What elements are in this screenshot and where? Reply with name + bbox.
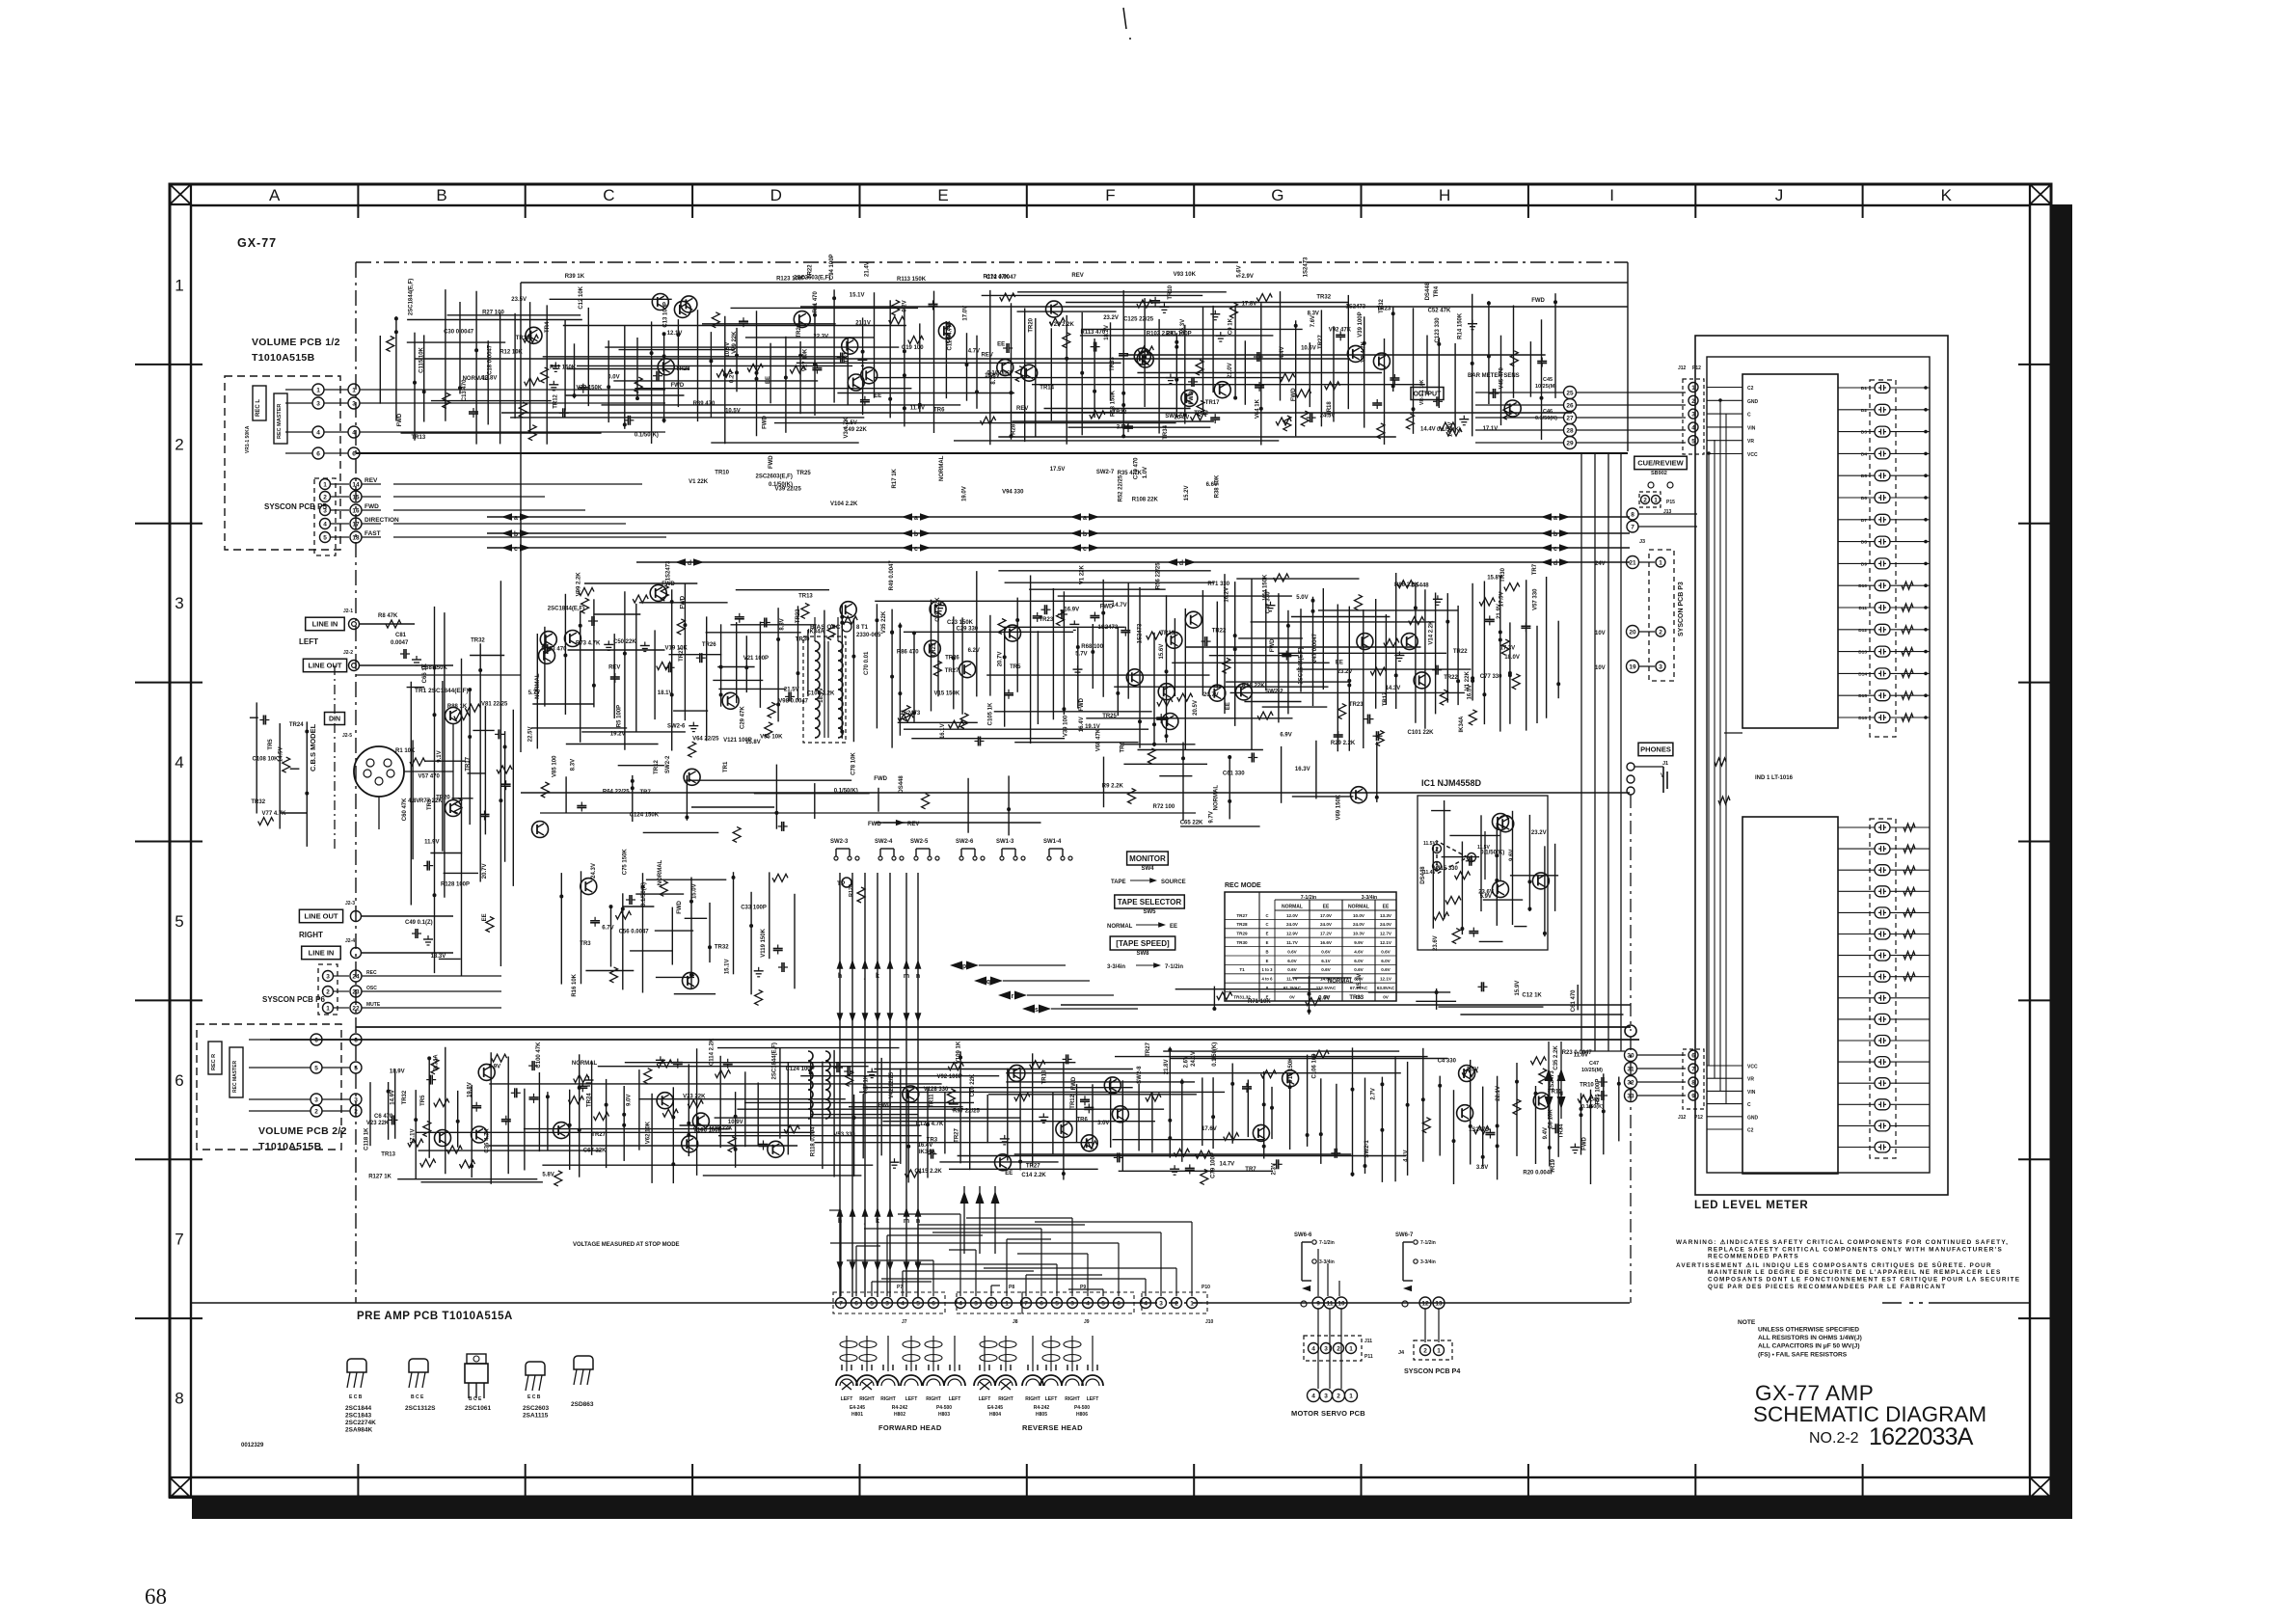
svg-text:V16 150K: V16 150K bbox=[1288, 1057, 1294, 1083]
svg-text:R20 0.0047: R20 0.0047 bbox=[1523, 1170, 1553, 1176]
svg-text:n: n bbox=[916, 973, 920, 980]
svg-text:R39 1K: R39 1K bbox=[565, 274, 585, 280]
svg-text:20.7V: 20.7V bbox=[1203, 692, 1219, 698]
svg-text:R86 2.2K: R86 2.2K bbox=[1394, 582, 1419, 588]
svg-text:3: 3 bbox=[314, 1097, 318, 1104]
svg-text:24.5V: 24.5V bbox=[1320, 413, 1336, 419]
svg-text:18.0V: 18.0V bbox=[1504, 655, 1520, 661]
svg-text:TR30: TR30 bbox=[1236, 940, 1248, 945]
svg-text:C101 22K: C101 22K bbox=[1408, 730, 1435, 736]
svg-text:TR10: TR10 bbox=[1580, 1083, 1594, 1089]
svg-text:R127 1K: R127 1K bbox=[368, 1174, 392, 1179]
svg-text:2SC1844: 2SC1844 bbox=[345, 1405, 371, 1412]
svg-text:SW6-7: SW6-7 bbox=[1395, 1232, 1414, 1238]
svg-text:G: G bbox=[1271, 186, 1283, 204]
svg-text:D15: D15 bbox=[1858, 693, 1867, 699]
svg-text:3: 3 bbox=[1070, 1301, 1074, 1308]
svg-text:17.5V: 17.5V bbox=[1050, 467, 1066, 473]
svg-text:RIGHT: RIGHT bbox=[859, 1396, 875, 1402]
svg-text:PHONES: PHONES bbox=[1640, 745, 1671, 754]
svg-text:TR23: TR23 bbox=[932, 642, 937, 657]
svg-text:R39 470: R39 470 bbox=[693, 401, 716, 407]
svg-text:TR28: TR28 bbox=[1236, 922, 1248, 927]
svg-text:C67 22K: C67 22K bbox=[583, 1148, 607, 1153]
svg-text:5: 5 bbox=[1691, 438, 1695, 445]
svg-text:17.3V: 17.3V bbox=[1500, 646, 1516, 652]
svg-text:FORWARD HEAD: FORWARD HEAD bbox=[878, 1423, 942, 1432]
svg-text:4: 4 bbox=[901, 1301, 905, 1308]
svg-text:8.3V: 8.3V bbox=[570, 759, 576, 771]
svg-text:C77 330: C77 330 bbox=[1480, 674, 1502, 680]
svg-text:0.6V: 0.6V bbox=[1287, 967, 1297, 972]
svg-text:B: B bbox=[436, 186, 446, 204]
svg-text:4: 4 bbox=[175, 753, 183, 771]
svg-text:19.0V: 19.0V bbox=[962, 486, 968, 501]
svg-text:3: 3 bbox=[1691, 412, 1695, 419]
svg-text:H802: H802 bbox=[894, 1412, 905, 1418]
svg-text:15.2V: 15.2V bbox=[1184, 486, 1190, 501]
svg-text:D1: D1 bbox=[1861, 386, 1867, 392]
svg-text:14.7V: 14.7V bbox=[1112, 603, 1127, 609]
svg-text:23.6V: 23.6V bbox=[1433, 935, 1439, 951]
svg-text:0V: 0V bbox=[1383, 994, 1390, 999]
svg-text:6: 6 bbox=[1691, 1053, 1695, 1060]
svg-text:4.8V: 4.8V bbox=[408, 798, 419, 804]
svg-text:SW2-3: SW2-3 bbox=[830, 839, 849, 845]
svg-text:TR32: TR32 bbox=[251, 799, 265, 805]
svg-text:10V: 10V bbox=[1595, 631, 1606, 636]
svg-text:C58 22K: C58 22K bbox=[946, 320, 952, 343]
svg-text:IND 1 LT-1016: IND 1 LT-1016 bbox=[1755, 775, 1794, 781]
svg-text:10.5V: 10.5V bbox=[725, 342, 731, 358]
svg-text:1: 1 bbox=[1470, 855, 1473, 862]
svg-text:2330-065: 2330-065 bbox=[856, 633, 881, 638]
svg-text:4: 4 bbox=[1086, 1301, 1090, 1308]
svg-text:C35 2.2K: C35 2.2K bbox=[1553, 1045, 1559, 1070]
svg-text:23.2V: 23.2V bbox=[1103, 315, 1119, 321]
svg-text:H806: H806 bbox=[1076, 1412, 1088, 1418]
svg-text:C114 2.2K: C114 2.2K bbox=[710, 1038, 716, 1066]
svg-text:5.8V: 5.8V bbox=[542, 1173, 554, 1178]
svg-text:5: 5 bbox=[314, 1066, 318, 1072]
svg-text:TR17: TR17 bbox=[1383, 691, 1389, 706]
svg-text:C: C bbox=[1265, 913, 1268, 918]
svg-text:TR14: TR14 bbox=[1040, 385, 1054, 391]
svg-text:D3: D3 bbox=[1861, 430, 1867, 436]
svg-text:R114 47K: R114 47K bbox=[984, 275, 1010, 281]
svg-text:SW2-4: SW2-4 bbox=[875, 839, 893, 845]
svg-text:C49 0.1(Z): C49 0.1(Z) bbox=[405, 920, 433, 926]
svg-text:SW2-7: SW2-7 bbox=[1096, 470, 1115, 475]
svg-text:F: F bbox=[1105, 186, 1115, 204]
svg-text:EE: EE bbox=[766, 376, 771, 384]
svg-text:EE: EE bbox=[997, 342, 1005, 348]
svg-text:10.9V: 10.9V bbox=[728, 1120, 743, 1125]
svg-text:24V: 24V bbox=[1595, 561, 1606, 567]
svg-text:2: 2 bbox=[1691, 398, 1695, 405]
svg-text:TR7: TR7 bbox=[1245, 1167, 1256, 1173]
svg-text:TR12: TR12 bbox=[554, 393, 559, 408]
svg-text:5: 5 bbox=[870, 1301, 874, 1308]
svg-text:d: d bbox=[1179, 560, 1183, 567]
svg-text:R120: R120 bbox=[849, 884, 854, 897]
svg-text:E C B: E C B bbox=[527, 1394, 541, 1400]
svg-text:D: D bbox=[770, 186, 782, 204]
svg-text:R27 100: R27 100 bbox=[482, 311, 504, 316]
svg-text:SYSCON PCB P6: SYSCON PCB P6 bbox=[262, 995, 325, 1004]
svg-text:2: 2 bbox=[1337, 1346, 1340, 1353]
svg-text:R128 100P: R128 100P bbox=[441, 882, 470, 888]
svg-text:r: r bbox=[1012, 993, 1014, 1000]
svg-text:V93 10K: V93 10K bbox=[1174, 272, 1197, 278]
svg-text:FWD: FWD bbox=[868, 822, 881, 827]
svg-text:4: 4 bbox=[1144, 1301, 1148, 1308]
svg-text:TR1: TR1 bbox=[723, 761, 729, 772]
svg-text:SW2-8: SW2-8 bbox=[1137, 1066, 1143, 1084]
svg-text:C29 47K: C29 47K bbox=[741, 706, 746, 729]
svg-text:2SC1844(E,F): 2SC1844(E,F) bbox=[548, 607, 584, 612]
svg-text:H801: H801 bbox=[851, 1412, 863, 1418]
svg-text:12.1V: 12.1V bbox=[1380, 940, 1392, 945]
svg-text:R52 22/25: R52 22/25 bbox=[1119, 474, 1124, 501]
svg-text:CUE/REVIEW: CUE/REVIEW bbox=[1637, 459, 1684, 468]
svg-text:REC MODE: REC MODE bbox=[1225, 882, 1261, 889]
svg-text:FAST: FAST bbox=[365, 530, 381, 537]
svg-text:14.9V: 14.9V bbox=[390, 1090, 395, 1105]
svg-text:TR6: TR6 bbox=[1121, 742, 1126, 753]
svg-text:EE: EE bbox=[1170, 924, 1177, 930]
svg-text:2SC1844(E,F): 2SC1844(E,F) bbox=[409, 279, 415, 315]
svg-text:T1010A515B: T1010A515B bbox=[252, 352, 315, 364]
svg-text:C78 10K: C78 10K bbox=[851, 752, 856, 775]
svg-text:63.8VAC: 63.8VAC bbox=[1377, 986, 1395, 990]
svg-text:TR24: TR24 bbox=[587, 1093, 593, 1107]
svg-text:2.7V: 2.7V bbox=[1370, 1088, 1376, 1099]
svg-text:2: 2 bbox=[326, 989, 330, 996]
svg-text:15.6V: 15.6V bbox=[1159, 644, 1165, 660]
svg-text:5: 5 bbox=[1055, 1301, 1059, 1308]
svg-text:TR19: TR19 bbox=[516, 336, 530, 341]
svg-text:11.4V: 11.4V bbox=[1423, 870, 1436, 876]
svg-text:V92 47K: V92 47K bbox=[1329, 327, 1352, 333]
svg-text:EE: EE bbox=[1226, 702, 1231, 710]
svg-text:RIGHT: RIGHT bbox=[926, 1396, 941, 1402]
svg-text:C123 330: C123 330 bbox=[1435, 317, 1441, 343]
svg-text:8.9V: 8.9V bbox=[489, 1064, 500, 1069]
svg-text:21.9V: 21.9V bbox=[1497, 604, 1502, 619]
svg-text:IC1 NJM4558D: IC1 NJM4558D bbox=[1421, 778, 1482, 788]
svg-text:V81 22/25: V81 22/25 bbox=[481, 702, 508, 708]
svg-text:2: 2 bbox=[989, 1301, 993, 1308]
svg-text:V57 330: V57 330 bbox=[1533, 588, 1539, 610]
svg-text:4.4V: 4.4V bbox=[1280, 346, 1285, 358]
svg-text:E: E bbox=[1266, 940, 1269, 945]
svg-text:10.0V: 10.0V bbox=[1353, 913, 1365, 918]
svg-text:TR12: TR12 bbox=[1070, 1094, 1076, 1108]
svg-text:BAR METER SENS: BAR METER SENS bbox=[1468, 373, 1520, 379]
svg-text:FWD: FWD bbox=[769, 455, 774, 469]
svg-text:LEFT: LEFT bbox=[979, 1396, 991, 1402]
svg-text:V69 150K: V69 150K bbox=[1337, 794, 1342, 820]
svg-text:15.9V: 15.9V bbox=[1515, 981, 1521, 996]
svg-text:SYSCON PCB P4: SYSCON PCB P4 bbox=[1404, 1367, 1460, 1375]
svg-text:24.0V: 24.0V bbox=[1380, 922, 1392, 927]
svg-text:R123 100P: R123 100P bbox=[776, 277, 805, 283]
svg-text:V1 22K: V1 22K bbox=[1080, 564, 1086, 584]
svg-text:TR24: TR24 bbox=[289, 722, 304, 728]
svg-text:FWD: FWD bbox=[1581, 1136, 1587, 1150]
svg-text:P4-500: P4-500 bbox=[1074, 1405, 1090, 1411]
svg-text:1: 1 bbox=[175, 276, 183, 294]
svg-text:LEFT: LEFT bbox=[841, 1396, 853, 1402]
svg-text:C33 100P: C33 100P bbox=[741, 905, 767, 910]
svg-text:V15 150K: V15 150K bbox=[934, 691, 960, 697]
svg-text:AVERTISSEMENT ⚠IL INDIQU LES C: AVERTISSEMENT ⚠IL INDIQU LES COMPOSANTS … bbox=[1676, 1260, 1992, 1269]
svg-text:b: b bbox=[514, 531, 518, 538]
svg-text:14.5V: 14.5V bbox=[278, 746, 284, 762]
svg-text:29: 29 bbox=[1566, 441, 1574, 447]
svg-text:REPLACE SAFETY CRITICAL COMPON: REPLACE SAFETY CRITICAL COMPONENTS ONLY … bbox=[1708, 1246, 2003, 1253]
svg-text:TR29: TR29 bbox=[797, 323, 802, 338]
svg-text:R16 10K: R16 10K bbox=[572, 973, 578, 996]
svg-text:1: 1 bbox=[316, 388, 320, 394]
svg-text:R123 470: R123 470 bbox=[541, 647, 567, 653]
svg-text:24.0V: 24.0V bbox=[1286, 922, 1299, 927]
svg-text:C46: C46 bbox=[1543, 409, 1553, 415]
svg-text:V39 100P: V39 100P bbox=[1358, 311, 1364, 337]
svg-text:21.4V: 21.4V bbox=[865, 261, 871, 277]
svg-text:RECOMMENDED PARTS: RECOMMENDED PARTS bbox=[1708, 1254, 1799, 1260]
svg-text:OUTPUT: OUTPUT bbox=[1414, 392, 1443, 398]
svg-text:3: 3 bbox=[175, 594, 183, 612]
svg-text:R108 22K: R108 22K bbox=[1132, 498, 1159, 503]
svg-text:C50 22K: C50 22K bbox=[613, 639, 636, 645]
svg-text:EE: EE bbox=[874, 393, 881, 399]
svg-text:19.2V: 19.2V bbox=[610, 731, 626, 737]
svg-text:ALL CAPACITORS IN μF 50 WV(J): ALL CAPACITORS IN μF 50 WV(J) bbox=[1758, 1343, 1860, 1350]
svg-text:j: j bbox=[863, 973, 866, 980]
svg-text:RIGHT: RIGHT bbox=[998, 1396, 1013, 1402]
svg-text:s: s bbox=[1035, 1007, 1039, 1014]
svg-text:RIGHT: RIGHT bbox=[880, 1396, 896, 1402]
svg-text:TR27: TR27 bbox=[591, 1132, 606, 1138]
svg-text:TR22: TR22 bbox=[1444, 675, 1458, 681]
svg-text:21.0V: 21.0V bbox=[1228, 363, 1233, 378]
svg-text:V17 10K: V17 10K bbox=[802, 348, 808, 371]
svg-text:17.6V: 17.6V bbox=[1202, 1126, 1217, 1132]
svg-text:FWD: FWD bbox=[1270, 638, 1276, 652]
svg-text:V92 100P: V92 100P bbox=[937, 1074, 962, 1080]
svg-text:EE: EE bbox=[1005, 1171, 1013, 1177]
svg-text:C47: C47 bbox=[1589, 1061, 1599, 1067]
svg-text:EE: EE bbox=[1383, 905, 1390, 910]
svg-text:NORMAL: NORMAL bbox=[463, 376, 489, 382]
svg-text:SW2-5: SW2-5 bbox=[1165, 414, 1183, 420]
svg-text:E: E bbox=[937, 186, 948, 204]
svg-text:TR25: TR25 bbox=[797, 471, 811, 476]
svg-text:TR27: TR27 bbox=[679, 647, 685, 662]
svg-text:V35 10K: V35 10K bbox=[760, 734, 783, 740]
svg-text:TR27: TR27 bbox=[1146, 1042, 1151, 1056]
svg-text:C18 0.0047: C18 0.0047 bbox=[488, 344, 494, 375]
svg-text:FWD: FWD bbox=[1189, 391, 1195, 404]
svg-text:VCC: VCC bbox=[1747, 1065, 1758, 1070]
svg-text:J9: J9 bbox=[1084, 1319, 1090, 1325]
svg-text:RIGHT: RIGHT bbox=[1065, 1396, 1080, 1402]
svg-text:3: 3 bbox=[974, 1301, 978, 1308]
svg-text:C70 470: C70 470 bbox=[1134, 457, 1140, 479]
svg-text:TAPE SELECTOR: TAPE SELECTOR bbox=[1118, 898, 1182, 907]
svg-text:11.5V: 11.5V bbox=[1423, 841, 1436, 847]
svg-text:LINE IN: LINE IN bbox=[309, 949, 335, 958]
svg-text:1: 1 bbox=[1437, 1348, 1441, 1355]
svg-text:R29 2.2K: R29 2.2K bbox=[1331, 741, 1356, 746]
svg-text:2: 2 bbox=[1423, 1348, 1427, 1355]
svg-text:D5: D5 bbox=[1861, 474, 1867, 479]
svg-text:C29 330: C29 330 bbox=[957, 626, 979, 632]
svg-text:DS448: DS448 bbox=[899, 775, 905, 794]
svg-text:R77 22K: R77 22K bbox=[419, 798, 443, 804]
svg-text:P12: P12 bbox=[1692, 365, 1701, 371]
svg-text:17.0V: 17.0V bbox=[963, 306, 969, 321]
svg-text:6.0V: 6.0V bbox=[1287, 959, 1297, 963]
svg-text:1: 1 bbox=[1691, 385, 1695, 392]
svg-text:24.3V: 24.3V bbox=[591, 863, 597, 879]
svg-text:REV: REV bbox=[1071, 273, 1083, 279]
svg-text:C100 47K: C100 47K bbox=[536, 1042, 542, 1069]
svg-text:3: 3 bbox=[885, 1301, 889, 1308]
svg-text:0.0047: 0.0047 bbox=[391, 640, 409, 646]
svg-text:R18 22K: R18 22K bbox=[1242, 684, 1265, 690]
svg-text:10.6V: 10.6V bbox=[1301, 346, 1316, 352]
svg-text:12: 12 bbox=[1421, 1301, 1429, 1308]
svg-text:V32 150K: V32 150K bbox=[577, 386, 603, 392]
svg-text:J12: J12 bbox=[1678, 365, 1687, 371]
svg-text:R71 330: R71 330 bbox=[1207, 582, 1229, 587]
svg-text:4: 4 bbox=[1691, 425, 1695, 432]
svg-text:C14 2.2K: C14 2.2K bbox=[1021, 1173, 1046, 1178]
svg-text:10: 10 bbox=[1337, 1301, 1345, 1308]
svg-text:9.6V: 9.6V bbox=[1509, 850, 1515, 861]
svg-text:2: 2 bbox=[323, 495, 327, 501]
svg-text:RIGHT: RIGHT bbox=[1025, 1396, 1040, 1402]
svg-text:C115 2.2K: C115 2.2K bbox=[914, 1169, 942, 1175]
svg-text:R97 22/25: R97 22/25 bbox=[953, 1109, 980, 1115]
svg-text:2: 2 bbox=[1337, 1394, 1340, 1400]
svg-text:LINE OUT: LINE OUT bbox=[305, 912, 338, 921]
svg-text:FWD: FWD bbox=[365, 503, 379, 510]
svg-text:COMPOSANTS DONT LE FONCTIONNEM: COMPOSANTS DONT LE FONCTIONNEMENT EST CR… bbox=[1708, 1277, 2020, 1284]
svg-text:TR6: TR6 bbox=[1077, 1117, 1089, 1123]
svg-text:24.0V: 24.0V bbox=[1353, 922, 1365, 927]
svg-text:J2-5: J2-5 bbox=[342, 733, 352, 739]
svg-text:R9 2.2K: R9 2.2K bbox=[1102, 783, 1124, 789]
svg-text:E4-245: E4-245 bbox=[850, 1405, 865, 1411]
svg-text:2: 2 bbox=[1643, 498, 1647, 504]
svg-text:23.2V: 23.2V bbox=[1531, 830, 1547, 836]
svg-text:0V: 0V bbox=[1356, 994, 1363, 999]
svg-text:SW1-3: SW1-3 bbox=[996, 839, 1014, 845]
svg-text:k: k bbox=[876, 973, 879, 980]
svg-text:30: 30 bbox=[1627, 1053, 1634, 1060]
svg-text:6.0V: 6.0V bbox=[1381, 959, 1391, 963]
svg-text:LINE OUT: LINE OUT bbox=[309, 662, 342, 670]
svg-text:13: 13 bbox=[1435, 1301, 1443, 1308]
svg-text:14.7V: 14.7V bbox=[1220, 1162, 1235, 1168]
svg-text:7: 7 bbox=[839, 1301, 843, 1308]
svg-text:REV: REV bbox=[1016, 406, 1028, 412]
svg-text:TR22: TR22 bbox=[807, 264, 813, 279]
svg-text:TR27: TR27 bbox=[1026, 1164, 1040, 1170]
svg-text:P10: P10 bbox=[1202, 1285, 1210, 1290]
svg-text:C23 150K: C23 150K bbox=[947, 620, 974, 626]
svg-text:FWD: FWD bbox=[763, 416, 769, 429]
svg-text:19: 19 bbox=[1629, 664, 1636, 671]
svg-text:0.6V: 0.6V bbox=[1321, 949, 1331, 954]
svg-text:4: 4 bbox=[323, 522, 327, 528]
svg-text:V119 150K: V119 150K bbox=[761, 928, 767, 957]
svg-text:J2-1: J2-1 bbox=[343, 609, 353, 614]
svg-text:4: 4 bbox=[1311, 1394, 1315, 1400]
svg-text:6: 6 bbox=[316, 451, 320, 458]
svg-text:10/25(M): 10/25(M) bbox=[1581, 1068, 1603, 1073]
svg-text:FWD: FWD bbox=[1071, 1076, 1077, 1090]
svg-text:D8: D8 bbox=[1861, 540, 1867, 546]
svg-text:P12: P12 bbox=[1694, 1115, 1703, 1121]
svg-text:FWD: FWD bbox=[1100, 605, 1114, 610]
svg-text:C79 100P: C79 100P bbox=[1210, 1152, 1216, 1178]
svg-text:8.7V: 8.7V bbox=[1354, 977, 1364, 982]
svg-text:TR1: TR1 bbox=[844, 351, 850, 363]
svg-text:17.1V: 17.1V bbox=[411, 1128, 417, 1144]
svg-text:SYSCON PCB P3: SYSCON PCB P3 bbox=[1678, 582, 1685, 636]
svg-text:D13: D13 bbox=[1858, 650, 1867, 656]
svg-text:TR10: TR10 bbox=[715, 471, 729, 476]
svg-text:J10: J10 bbox=[1205, 1319, 1214, 1325]
svg-text:16.9V: 16.9V bbox=[1064, 608, 1079, 613]
svg-text:TR26: TR26 bbox=[702, 642, 716, 648]
svg-text:1S2473: 1S2473 bbox=[666, 560, 672, 581]
svg-text:WARNING: ⚠INDICATES SAFETY CRI: WARNING: ⚠INDICATES SAFETY CRITICAL COMP… bbox=[1676, 1239, 2009, 1246]
svg-text:SW2-6: SW2-6 bbox=[956, 839, 974, 845]
svg-text:TR27: TR27 bbox=[954, 1128, 959, 1143]
svg-text:33: 33 bbox=[1627, 1094, 1634, 1100]
svg-text:V3 4.7K: V3 4.7K bbox=[844, 417, 850, 438]
svg-text:20: 20 bbox=[1629, 630, 1636, 636]
svg-text:FWD: FWD bbox=[1531, 298, 1545, 304]
svg-text:D9: D9 bbox=[1861, 561, 1867, 567]
svg-text:m: m bbox=[904, 1218, 909, 1225]
svg-text:TR5: TR5 bbox=[420, 1095, 426, 1106]
svg-text:R12 10K: R12 10K bbox=[500, 349, 523, 355]
svg-text:TR22: TR22 bbox=[1194, 411, 1208, 417]
svg-text:C118 1K: C118 1K bbox=[365, 1127, 370, 1150]
svg-text:C75 150K: C75 150K bbox=[623, 849, 629, 876]
svg-text:(FS) • FAIL SAFE RESISTORS: (FS) • FAIL SAFE RESISTORS bbox=[1758, 1351, 1848, 1358]
svg-text:c: c bbox=[1083, 546, 1087, 553]
svg-text:REC MASTER: REC MASTER bbox=[232, 1061, 238, 1093]
svg-text:V104 2.2K: V104 2.2K bbox=[830, 501, 858, 507]
svg-text:3: 3 bbox=[1324, 1346, 1328, 1353]
svg-text:a: a bbox=[1083, 515, 1087, 522]
svg-text:R91 100P: R91 100P bbox=[1166, 332, 1192, 338]
svg-text:T1010A515B: T1010A515B bbox=[258, 1141, 322, 1152]
svg-text:P11: P11 bbox=[1364, 1354, 1373, 1360]
svg-text:R68 100: R68 100 bbox=[1081, 644, 1103, 650]
svg-text:E C B: E C B bbox=[349, 1394, 363, 1400]
svg-text:g: g bbox=[1559, 1090, 1563, 1096]
svg-text:VOLUME PCB 1/2: VOLUME PCB 1/2 bbox=[252, 337, 340, 348]
